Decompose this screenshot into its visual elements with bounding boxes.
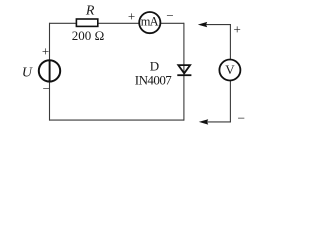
arrowhead to diode anode node <box>198 22 207 27</box>
wire: voltmeter bottom lead <box>207 121 231 123</box>
voltmeter V circle <box>219 60 240 81</box>
svg-text:−: − <box>237 110 245 125</box>
diode D triangle (anode) <box>178 65 190 73</box>
wire: left branch through source U <box>49 23 51 121</box>
svg-text:−: − <box>166 8 173 23</box>
wire: right branch through diode D <box>183 23 185 121</box>
svg-text:mA: mA <box>141 15 159 29</box>
svg-text:+: + <box>234 21 241 36</box>
diode D cathode bar <box>177 74 191 76</box>
source U circle <box>39 60 60 81</box>
wire: bottom return <box>50 119 184 121</box>
svg-text:IN4007: IN4007 <box>135 73 172 88</box>
wire through source symbol <box>49 60 51 81</box>
arrowhead to diode cathode node <box>199 119 208 124</box>
svg-text:R: R <box>85 3 95 18</box>
svg-text:200 Ω: 200 Ω <box>72 28 105 43</box>
svg-text:D: D <box>150 58 159 73</box>
svg-text:V: V <box>225 62 235 77</box>
resistor R (200 Ohm) body <box>76 19 97 26</box>
svg-text:+: + <box>42 44 49 59</box>
wire: top, node between source/resistor/ammeter <box>50 22 184 24</box>
svg-text:U: U <box>22 66 33 81</box>
wire: voltmeter branch vertical <box>229 24 231 122</box>
wire: voltmeter top lead <box>206 24 231 26</box>
svg-text:+: + <box>128 9 135 24</box>
milliammeter mA circle <box>139 12 160 33</box>
svg-text:−: − <box>43 81 50 96</box>
